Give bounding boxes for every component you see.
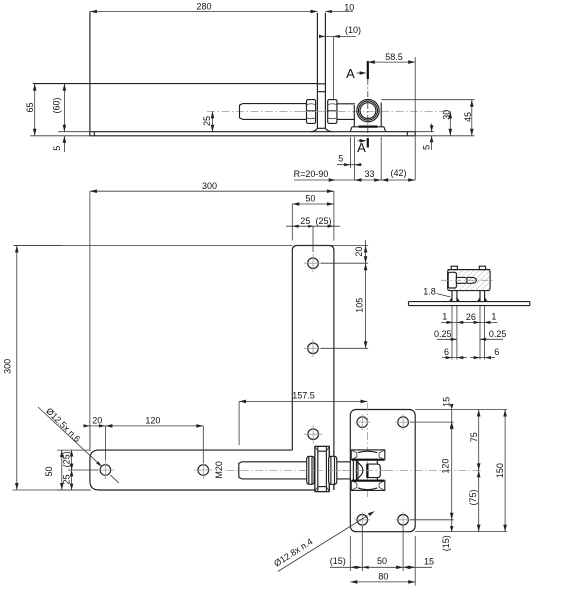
dim 20 strip top to hole [297, 240, 368, 263]
dim R=20-90 [294, 41, 336, 182]
centerline over clamp [351, 469, 391, 471]
dim 50 strip width [292, 194, 334, 241]
centerline over cluster [300, 469, 345, 471]
dim 45 right [382, 100, 475, 136]
svg-text:157.5: 157.5 [292, 391, 315, 401]
detail centerline [441, 279, 493, 281]
svg-text:(75): (75) [468, 489, 478, 505]
svg-text:26: 26 [466, 312, 476, 322]
svg-text:0.25: 0.25 [434, 329, 452, 339]
dim 300 left vertical [3, 246, 293, 491]
detail base plate [409, 302, 530, 306]
svg-text:25: 25 [202, 116, 212, 126]
hex nut B front [329, 456, 337, 484]
svg-text:120: 120 [145, 415, 160, 425]
dim 105 hole to hole [321, 263, 368, 348]
svg-text:1: 1 [442, 312, 447, 322]
svg-text:(15): (15) [441, 535, 451, 551]
svg-text:R=20-90: R=20-90 [294, 169, 329, 179]
label M20 [214, 461, 224, 479]
svg-text:(15): (15) [330, 556, 346, 566]
dim 5 bracket overhang [337, 137, 362, 168]
hinge clamp front view: bottom flange [351, 480, 385, 490]
weld bell at strap base [311, 128, 333, 131]
dim (60) left [51, 84, 89, 132]
dim 33 / (42) bottom of top view [336, 137, 416, 182]
dim 50 arm height [44, 450, 91, 490]
threaded rod M20 front view [239, 462, 351, 479]
dim 300 top (front view) [90, 181, 334, 450]
rod centerline front [226, 469, 481, 471]
label Ø12.8x n.4 with leader [272, 511, 375, 571]
svg-text:80: 80 [378, 572, 388, 582]
strip hole upper [304, 254, 322, 272]
dim (25) 25 arm [62, 450, 98, 490]
weld fillets at plate [449, 297, 488, 301]
plate hole BR [395, 512, 411, 528]
svg-text:15: 15 [424, 557, 434, 567]
dim (10) [319, 25, 361, 38]
L-plate outline [90, 246, 334, 491]
svg-text:30: 30 [441, 110, 451, 120]
dim 25 (rod height) [202, 111, 214, 131]
svg-text:10: 10 [344, 2, 354, 12]
svg-text:(60): (60) [51, 97, 61, 113]
clamp body sides [358, 460, 377, 481]
svg-text:45: 45 [463, 112, 473, 122]
svg-text:105: 105 [355, 298, 365, 313]
dim 5 left [52, 136, 66, 152]
svg-text:(10): (10) [345, 25, 361, 35]
dim 120 arm holes [105, 415, 203, 463]
svg-text:50: 50 [377, 556, 387, 566]
dim (15) right plate bottom [441, 520, 454, 552]
hex nut (right of strap) [328, 100, 337, 124]
svg-text:25: 25 [62, 474, 72, 484]
svg-text:20: 20 [354, 247, 364, 257]
svg-text:5: 5 [52, 146, 62, 151]
eye bracket body [350, 103, 385, 132]
extension: strip top to 300-dim [14, 245, 293, 247]
hinge clamp front view: top flange [351, 450, 385, 460]
dim 58.5 [368, 52, 415, 180]
rod stub into eye [337, 104, 355, 120]
dim (75) right [415, 470, 507, 531]
dim 15 right plate top [410, 397, 507, 428]
eye ring circles [357, 99, 379, 121]
dim 65 left [25, 84, 89, 136]
svg-text:5: 5 [422, 145, 432, 150]
svg-text:58.5: 58.5 [385, 52, 403, 62]
hex nut A front [307, 456, 314, 484]
svg-text:300: 300 [202, 181, 217, 191]
svg-text:M20: M20 [214, 461, 224, 479]
bracket vertical centerline [367, 403, 369, 497]
strap tongue end [367, 464, 380, 478]
svg-text:120: 120 [440, 459, 450, 474]
label Ø12.5x n.6 with leader [38, 406, 119, 483]
adjuster block (strap end) [315, 446, 329, 491]
svg-text:300: 300 [3, 359, 13, 374]
svg-text:(42): (42) [390, 168, 406, 178]
dim 80 bottom [350, 572, 415, 584]
strip hole third [304, 425, 322, 444]
dim (15) 50 15 bottom [330, 526, 434, 586]
gate frame left edge / 280-dim extension [89, 12, 91, 136]
section block hatched body [441, 262, 515, 292]
strip hole lower [304, 339, 322, 357]
right leg [480, 291, 485, 360]
section line A-A [367, 61, 369, 148]
svg-text:A: A [346, 66, 355, 81]
dim 280 top [90, 2, 318, 14]
arm hole left [96, 461, 114, 479]
svg-text:33: 33 [364, 169, 374, 179]
dim 0.25 pair [434, 329, 506, 341]
svg-text:20: 20 [92, 415, 102, 425]
arm hole right [194, 461, 212, 479]
dim 1 26 1 [441, 312, 498, 324]
svg-text:1.8: 1.8 [423, 287, 436, 297]
section arrow A top [346, 66, 366, 81]
plate hole TL [354, 414, 370, 430]
dim 30 right [441, 110, 452, 136]
svg-text:(25): (25) [315, 216, 331, 226]
svg-text:50: 50 [44, 466, 54, 476]
(10) extension line [332, 36, 334, 99]
svg-text:0.25: 0.25 [489, 329, 507, 339]
svg-text:280: 280 [196, 2, 211, 12]
dim 20 arm [84, 415, 106, 460]
rod centerline [207, 110, 452, 112]
label 1.8 with leader [423, 287, 450, 298]
section arrow A bottom [357, 139, 366, 155]
dim 5 right (plate thickness) [415, 124, 434, 151]
plate hole BL [354, 512, 370, 528]
left leg [452, 291, 457, 360]
dim 25 (25) strip [286, 216, 340, 252]
svg-text:15: 15 [441, 397, 451, 407]
dim 150 right [495, 410, 507, 532]
mounting flat bar side view [89, 132, 415, 136]
svg-text:50: 50 [305, 194, 315, 204]
dim 10 top [311, 2, 354, 13]
svg-text:6: 6 [444, 347, 449, 357]
vertical strap (10 wide) [317, 13, 325, 128]
svg-text:5: 5 [338, 154, 343, 164]
dim 120 right plate holes [410, 422, 454, 520]
pin and slot (white keyhole) [448, 272, 476, 288]
svg-text:75: 75 [469, 432, 479, 442]
block top tabs [448, 266, 491, 269]
dim 157.5 [239, 391, 367, 445]
dim 75 right [421, 410, 481, 471]
svg-text:(25): (25) [62, 451, 72, 467]
gate frame top edge [33, 83, 317, 85]
svg-text:6: 6 [494, 347, 499, 357]
hex nut (left) on rod [307, 100, 316, 124]
rod cone tip in clamp [353, 460, 363, 480]
back plate outline [350, 410, 415, 532]
svg-text:25: 25 [300, 216, 310, 226]
svg-text:150: 150 [495, 463, 505, 478]
threaded rod M20 side view [240, 104, 307, 120]
centerline over nuts top view [300, 110, 345, 112]
extension: arm bottom to 300-dim [13, 489, 90, 491]
plate hole TR [395, 414, 411, 430]
svg-text:1: 1 [491, 312, 496, 322]
dim 6 pair [442, 347, 499, 359]
svg-text:65: 65 [25, 102, 35, 112]
